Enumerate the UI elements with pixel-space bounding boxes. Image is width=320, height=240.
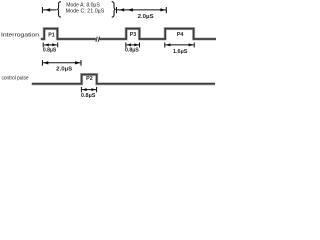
svg-text:2.0µS: 2.0µS xyxy=(138,14,154,20)
svg-text:P2: P2 xyxy=(86,76,93,82)
svg-text:0.8µS: 0.8µS xyxy=(125,48,139,54)
svg-text:2.0µS: 2.0µS xyxy=(56,66,72,72)
svg-text:control pulse: control pulse xyxy=(2,76,29,82)
svg-text:0.8µS: 0.8µS xyxy=(81,93,96,99)
svg-text:0.8µS: 0.8µS xyxy=(43,47,57,53)
svg-text:P4: P4 xyxy=(177,32,184,38)
svg-text:Mode C: 21.0µS: Mode C: 21.0µS xyxy=(66,8,105,14)
svg-text:Interrogation: Interrogation xyxy=(1,33,39,39)
svg-text:P1: P1 xyxy=(48,32,55,38)
svg-text:1.6µS: 1.6µS xyxy=(173,49,188,55)
svg-text:P3: P3 xyxy=(130,32,137,38)
